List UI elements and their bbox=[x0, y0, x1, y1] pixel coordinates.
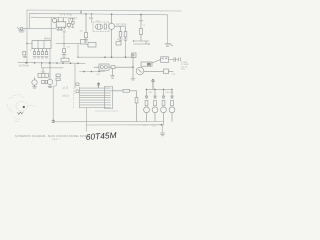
test point TP1 bbox=[80, 10, 82, 14]
svg-text:2SC1815: 2SC1815 bbox=[116, 23, 127, 27]
wire bottom line 2 bbox=[86, 124, 161, 126]
ground Q3 bbox=[33, 87, 37, 88]
terminal arrow bottom left bbox=[52, 119, 55, 123]
ground U5 pin1 bbox=[57, 29, 60, 30]
svg-text:2SC945: 2SC945 bbox=[166, 92, 175, 94]
capacitor C3 under U1 bbox=[41, 52, 44, 59]
bus stub labels bbox=[73, 88, 76, 109]
wire to IC U1 bbox=[27, 43, 32, 45]
input terminal J1 bbox=[18, 27, 28, 32]
capacitor C4 under U1 bbox=[45, 52, 48, 59]
ground Q9 bbox=[48, 86, 52, 87]
crystal Y1 bbox=[133, 40, 150, 44]
node N junction bbox=[70, 62, 72, 64]
resistor R11 bbox=[94, 66, 133, 69]
capacitor C9 bbox=[169, 58, 181, 62]
IC U4 bbox=[152, 57, 169, 63]
ceramic filter X1 dashed box bbox=[93, 22, 109, 32]
wire U1 pin to sub rail bbox=[50, 18, 52, 41]
wire bottom line 1 bbox=[53, 121, 163, 123]
label TP1 bbox=[60, 14, 71, 16]
wire bus line 4 bbox=[80, 94, 111, 96]
resistor R15 bbox=[145, 101, 148, 106]
transistor Q1 bbox=[52, 18, 56, 22]
coil L2 bbox=[38, 68, 48, 78]
diode D3 bbox=[154, 89, 157, 98]
wire outer top rail B+ bbox=[27, 10, 181, 43]
ground R19 bbox=[62, 53, 66, 58]
antenna E1 bbox=[139, 15, 143, 29]
node C junction bbox=[91, 13, 93, 15]
ground U5 pin3 bbox=[63, 31, 66, 32]
node A3 junction bbox=[77, 57, 78, 58]
node R junction bbox=[98, 71, 100, 73]
capacitor C8 bbox=[116, 42, 121, 46]
wire bank rail bbox=[147, 88, 173, 90]
wire inner top rail bbox=[30, 13, 168, 29]
wire U1 right pin down bbox=[49, 49, 51, 63]
ground bottom bbox=[160, 133, 165, 136]
capacitor C7 bbox=[45, 81, 47, 84]
wire bus line 7 bbox=[80, 102, 111, 104]
transistor Q3 bbox=[32, 77, 37, 86]
node W junction bbox=[171, 89, 173, 91]
svg-text:T201: T201 bbox=[41, 72, 47, 74]
resistor R4 inside X1 bbox=[104, 24, 106, 29]
node S junction bbox=[132, 66, 134, 68]
wire bus left spine bbox=[79, 87, 81, 108]
resistor R9 bbox=[56, 74, 60, 77]
resistor R14 bbox=[135, 98, 138, 122]
resistor R10 bbox=[56, 78, 60, 81]
node P junction bbox=[83, 71, 85, 73]
svg-text:4.5: 4.5 bbox=[63, 85, 69, 90]
node H junction bbox=[25, 62, 27, 64]
resistor R18 bbox=[171, 101, 174, 106]
capacitor C6 bbox=[42, 81, 45, 84]
power arrow bank bbox=[152, 79, 155, 89]
resistor R22 bbox=[76, 90, 79, 93]
capacitor C2 under U1 bbox=[37, 52, 40, 59]
node O junction bbox=[77, 63, 79, 65]
wire bus line 6 bbox=[80, 99, 111, 101]
svg-text:SHEET 1: SHEET 1 bbox=[52, 139, 60, 141]
wire bus line 8 bbox=[80, 104, 111, 106]
resistor R6 bbox=[124, 27, 128, 41]
doodle beak dark bbox=[18, 112, 24, 114]
wire bus line 9 bbox=[80, 106, 111, 108]
svg-text:ohm: ohm bbox=[181, 69, 185, 71]
node F junction bbox=[104, 56, 106, 58]
node V junction bbox=[163, 89, 165, 91]
resistor R7 bbox=[140, 29, 143, 42]
connector P1 bbox=[132, 53, 137, 58]
wire ground drop bottom bbox=[162, 125, 164, 133]
node A4 junction bbox=[26, 62, 28, 64]
wire bus line 2 bbox=[80, 90, 114, 92]
node K junction bbox=[49, 62, 51, 64]
resistor R20 bbox=[81, 40, 86, 45]
node L junction bbox=[56, 62, 58, 64]
transistor Q6 bbox=[152, 107, 158, 122]
wire R6 to mid rail bbox=[125, 40, 127, 57]
transistor Q8 bbox=[169, 107, 175, 122]
transistor Q7 bbox=[161, 107, 167, 125]
node G junction bbox=[125, 56, 127, 58]
transistor Q5 bbox=[144, 107, 150, 122]
node I junction bbox=[34, 62, 36, 64]
wire takeoff y67.8 bbox=[42, 67, 63, 69]
wire mid horizontal from input node bbox=[27, 28, 56, 30]
wire right rail drop bbox=[167, 15, 169, 44]
wire R5 R6 top tie bbox=[115, 25, 126, 27]
wire video drop bbox=[53, 81, 56, 119]
optocoupler U2 bbox=[99, 64, 109, 70]
wire IF rail y63 bbox=[18, 62, 85, 65]
resistor R13 bbox=[113, 89, 137, 97]
node A2 junction bbox=[63, 43, 64, 44]
wire sub rail feeding Q1 stage bbox=[31, 16, 77, 19]
svg-text:MHz: MHz bbox=[63, 94, 70, 98]
transistor Q4 bbox=[136, 67, 144, 75]
resistor R3 bbox=[84, 14, 88, 42]
wire audio column bbox=[132, 54, 135, 78]
transistor Q9 bbox=[47, 63, 52, 86]
wire left column down bbox=[26, 43, 28, 63]
resistor R19 bbox=[63, 49, 66, 53]
resistor R5 bbox=[119, 27, 123, 41]
node X junction bbox=[161, 124, 163, 126]
svg-text:10.7MHz: 10.7MHz bbox=[19, 64, 30, 68]
svg-text:4.7k: 4.7k bbox=[172, 74, 176, 76]
svg-text:1k: 1k bbox=[143, 25, 145, 27]
node D junction bbox=[111, 13, 113, 15]
wire mid rail y57 bbox=[78, 56, 133, 58]
transistor Q2 bbox=[109, 14, 115, 57]
resistor R8 above rail bbox=[61, 58, 69, 61]
svg-text:SCHEMATIC DIAGRAM - MAIN CHASS: SCHEMATIC DIAGRAM - MAIN CHASSIS MODEL 6… bbox=[15, 135, 90, 138]
svg-text:2SC: 2SC bbox=[149, 92, 154, 94]
diode D2 bbox=[145, 89, 148, 98]
wire drop x41.7 bbox=[41, 63, 43, 68]
svg-text:10k: 10k bbox=[80, 31, 83, 33]
wire bus line 5 bbox=[80, 97, 111, 99]
resistor R16 bbox=[154, 101, 157, 106]
IC U1 bbox=[32, 41, 51, 52]
svg-text:12v: 12v bbox=[89, 16, 94, 20]
resistor R21 bbox=[76, 83, 79, 86]
wire bottom left drop bbox=[85, 108, 87, 131]
capacitor C1 under U1 bbox=[33, 52, 36, 59]
capacitor C5 bbox=[68, 20, 71, 29]
resistor R12 bbox=[144, 69, 173, 74]
resistor R17 bbox=[162, 101, 165, 106]
wire IF out y43.7 bbox=[56, 43, 80, 45]
diode D1 bbox=[72, 18, 75, 27]
svg-text:4Nch: 4Nch bbox=[44, 37, 51, 41]
delay line DL1 bbox=[86, 43, 96, 48]
IC U3 bbox=[141, 62, 152, 66]
node J junction bbox=[41, 62, 43, 64]
ground audio bbox=[131, 79, 135, 80]
node A junction bbox=[26, 43, 27, 44]
wire feed x78 bbox=[77, 44, 79, 58]
svg-text:60T45M: 60T45M bbox=[85, 130, 116, 142]
oscillator coil T1 bbox=[95, 24, 102, 30]
doodle eye dark bbox=[23, 106, 25, 108]
ground U5 pin2 bbox=[60, 29, 63, 30]
diode D4 bbox=[162, 89, 165, 98]
IC U5 regulator bbox=[56, 18, 66, 29]
node A5 junction bbox=[49, 62, 51, 64]
legend notes text bbox=[181, 62, 188, 71]
ground U2 bbox=[111, 69, 115, 79]
wire bus line 1 bbox=[80, 87, 111, 89]
wire detector drop bbox=[63, 34, 65, 49]
wire node C drop bbox=[91, 14, 93, 23]
node M junction bbox=[62, 62, 64, 64]
node T junction bbox=[146, 89, 148, 91]
wire bus feed vertical bbox=[74, 63, 76, 88]
capacitor C10 bbox=[23, 52, 27, 58]
connector J2 shield bbox=[105, 87, 113, 109]
wire stub y111 bbox=[95, 110, 118, 112]
power arrow mid bbox=[97, 83, 100, 88]
wire sound rail y71 bbox=[80, 71, 106, 73]
wire bus line 3 bbox=[80, 92, 111, 94]
ground right rail bbox=[165, 44, 173, 47]
node E junction bbox=[140, 14, 142, 16]
sketch doodle bbox=[7, 94, 36, 122]
node Q junction bbox=[91, 71, 93, 73]
node U junction bbox=[154, 89, 156, 91]
diode D5 bbox=[171, 89, 174, 98]
inductor L1 bbox=[69, 18, 75, 21]
node B junction bbox=[85, 13, 87, 15]
